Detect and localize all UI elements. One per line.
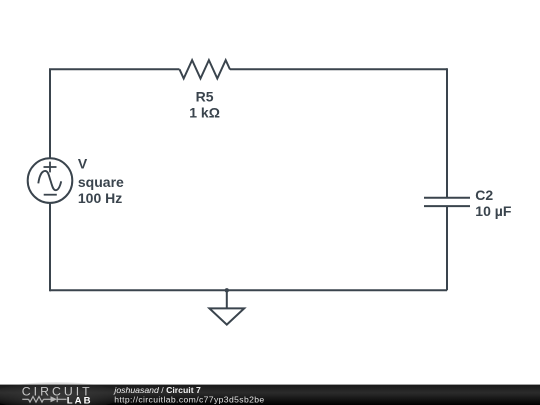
svg-text:square: square [78,174,124,190]
wire right vertical bottom (capacitor to bottom-right corner) [446,206,448,290]
wire left vertical top (V source to top-left corner) [49,69,51,158]
capacitor C2 [424,198,470,206]
wire top right segment [230,68,447,70]
wire right vertical top (to capacitor) [446,68,448,197]
svg-text:10 µF: 10 µF [475,203,512,219]
svg-text:LAB: LAB [67,396,93,405]
logo diode triangle [51,396,58,402]
ground stub wire [226,290,228,308]
voltage source minus sign [44,194,57,196]
wire top left segment [49,68,180,70]
voltage source sine waveform [38,171,61,190]
footer bar [0,385,540,405]
svg-text:http://circuitlab.com/c77yp3d5: http://circuitlab.com/c77yp3d5sb2be [114,395,264,405]
voltage source plus sign [44,162,57,173]
node junction dot [225,288,229,292]
svg-text:joshuasand / Circuit 7: joshuasand / Circuit 7 [113,385,201,395]
svg-text:1 kΩ: 1 kΩ [189,105,220,121]
footer logo glow [0,382,121,405]
svg-text:R5: R5 [196,88,214,104]
wire left vertical bottom (V source to bottom-left corner) [49,203,51,291]
svg-text:V: V [78,156,88,172]
voltage source V circle [28,158,73,203]
logo underline with resistor zigzag and diode [22,396,66,402]
wire bottom horizontal [50,289,447,291]
svg-text:C2: C2 [475,187,493,203]
svg-text:100 Hz: 100 Hz [78,190,122,206]
resistor R5 [180,60,230,78]
ground symbol triangle [209,308,244,324]
